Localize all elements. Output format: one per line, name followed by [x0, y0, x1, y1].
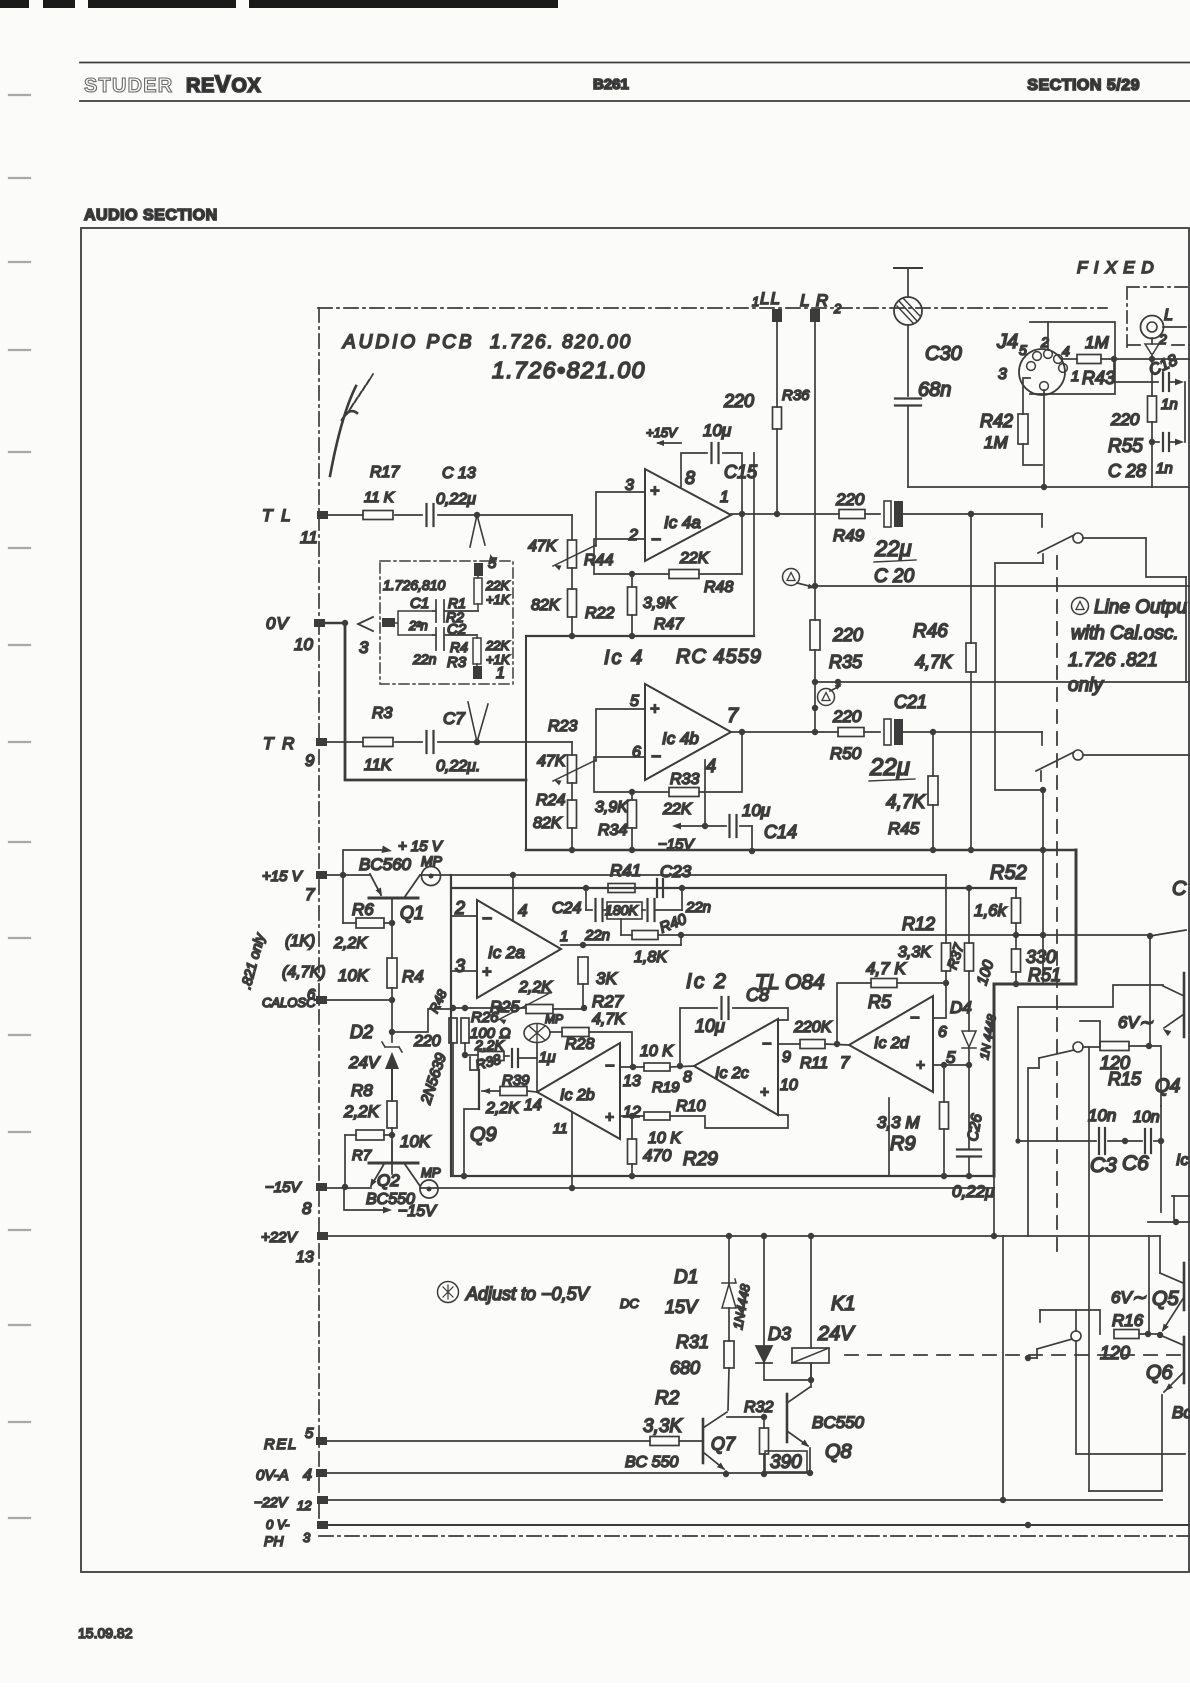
wire C6 right leg [1160, 1106, 1162, 1212]
svg-text:R36: R36 [782, 387, 810, 404]
svg-text:−: − [651, 747, 661, 766]
svg-text:−15V: −15V [398, 1203, 437, 1220]
wire Q8 base [727, 1416, 764, 1418]
capacitor C6 10n [1125, 1140, 1142, 1142]
wire IC4a -input feedback [594, 539, 669, 574]
node test fork 1 [474, 739, 480, 745]
wire R5 to -input [933, 983, 946, 1018]
wire 0V down to cell2 [345, 623, 526, 780]
svg-text:DC: DC [620, 1296, 639, 1311]
resistor R16 120 [1114, 1330, 1139, 1339]
svg-text:R42: R42 [980, 411, 1013, 431]
resistor R35 220 [810, 620, 820, 650]
svg-text:R2: R2 [655, 1388, 680, 1409]
resistor R33 22K [669, 788, 699, 797]
wire R44 wiper to +input [596, 492, 645, 546]
svg-text:10K: 10K [400, 1132, 431, 1151]
resistor R49 220 [839, 510, 865, 519]
svg-text:R31: R31 [676, 1332, 709, 1352]
svg-text:3,9K: 3,9K [595, 799, 629, 816]
svg-text:11: 11 [553, 1120, 568, 1136]
svg-text:R51: R51 [1028, 965, 1061, 985]
wire 0V-A rail [327, 1472, 810, 1474]
svg-text:1: 1 [1071, 368, 1079, 385]
resistor R39 2,2K [482, 1090, 500, 1092]
svg-text:Q9: Q9 [470, 1124, 497, 1146]
wire +15V arrow [343, 850, 385, 875]
svg-text:−15V: −15V [265, 1179, 302, 1196]
svg-text:R33: R33 [670, 771, 699, 788]
resistor R12 3,3K [945, 875, 947, 943]
svg-text:22n: 22n [685, 899, 711, 916]
svg-text:J4: J4 [996, 331, 1018, 353]
svg-text:R4: R4 [450, 639, 468, 655]
wire LR down [814, 322, 816, 620]
svg-text:1.726,810: 1.726,810 [383, 577, 445, 593]
switch SW4 [1071, 1331, 1081, 1341]
svg-text:R55: R55 [1108, 436, 1143, 457]
svg-text:2,2K: 2,2K [343, 1102, 380, 1121]
svg-text:BC 550: BC 550 [625, 1454, 678, 1471]
svg-text:R17: R17 [370, 464, 400, 481]
wire +15V arrow IC4a pin8 [658, 442, 681, 444]
wire J4 pin2 up [1047, 322, 1049, 350]
wire sw3 to R15 [1083, 1046, 1100, 1048]
svg-text:220: 220 [832, 625, 863, 645]
svg-text:L: L [1164, 307, 1173, 324]
resistor R22 82K [568, 589, 577, 617]
svg-text:(4,7K): (4,7K) [282, 964, 326, 981]
svg-text:2: 2 [454, 898, 465, 918]
svg-text:+: + [916, 1057, 925, 1074]
wire Q4 emitter down [1160, 1046, 1162, 1106]
resistor R9 3,3M [943, 1065, 945, 1102]
wire IC2a pin4 [512, 875, 514, 921]
svg-text:K1: K1 [831, 1293, 855, 1315]
wire C3 C6 line [1018, 1007, 1096, 1141]
svg-text:LL: LL [760, 289, 781, 308]
svg-text:3,3K: 3,3K [898, 944, 932, 961]
transistor Q7 BC550 [702, 1419, 705, 1463]
svg-text:MP: MP [421, 1165, 441, 1180]
wire right edge v577-682 [1185, 577, 1187, 682]
svg-text:6V∼: 6V∼ [1111, 1288, 1147, 1307]
resistor R36 220 [773, 407, 782, 429]
transistor Q2 BC550 [391, 1142, 393, 1162]
wire IC4b +input [596, 709, 645, 761]
svg-text:22n: 22n [412, 651, 437, 667]
svg-text:D2: D2 [350, 1022, 373, 1042]
transistor Q8 BC550 [786, 1394, 789, 1442]
wire output node [561, 944, 681, 946]
svg-text:R27: R27 [592, 992, 624, 1011]
svg-text:390: 390 [770, 1452, 802, 1473]
svg-text:T L: T L [262, 506, 293, 525]
svg-text:R3: R3 [372, 705, 393, 722]
svg-text:C23: C23 [660, 862, 692, 881]
svg-text:7: 7 [727, 705, 739, 727]
wire C15 right leg [753, 453, 755, 636]
svg-text:3: 3 [303, 1530, 311, 1545]
svg-text:R46: R46 [913, 621, 948, 642]
node test fork 5 [474, 512, 480, 518]
svg-text:C 20: C 20 [874, 566, 915, 587]
wire node row y1008 [451, 1007, 526, 1009]
wire J4 pin4 to R43 [1063, 358, 1077, 360]
svg-text:BC560: BC560 [359, 855, 412, 874]
wire dash-dot PCB border bottom [319, 1535, 1190, 1537]
svg-text:C: C [1172, 878, 1187, 900]
svg-text:12: 12 [297, 1498, 312, 1513]
svg-text:R3: R3 [447, 654, 467, 671]
svg-text:(1K): (1K) [285, 933, 315, 950]
svg-text:C14: C14 [764, 822, 797, 842]
trimmer R24 47K [568, 755, 577, 783]
capacitor C28 1n [1149, 439, 1155, 445]
svg-text:REVOX: REVOX [186, 71, 261, 98]
svg-text:Ic 4b: Ic 4b [662, 729, 699, 748]
svg-text:R22: R22 [585, 605, 614, 622]
svg-text:470: 470 [643, 1146, 672, 1165]
wire IC2d pin bottom [888, 1098, 890, 1176]
diode D1 15V zener [728, 1236, 730, 1283]
wire right edge 382-442 [1184, 382, 1186, 442]
svg-text:3,9K: 3,9K [643, 595, 677, 612]
svg-text:7: 7 [305, 885, 315, 904]
diode D4 1N4448 [968, 971, 970, 1031]
wire right net to Q4 base [1018, 985, 1163, 1007]
wire switch1 common to bus [995, 563, 1043, 790]
svg-text:Ic 2d: Ic 2d [874, 1035, 910, 1052]
svg-text:10n: 10n [1088, 1106, 1116, 1125]
op-amp IC2d [849, 996, 933, 1092]
wire -15V arrow Q2 [344, 1189, 385, 1210]
svg-text:4,7K: 4,7K [915, 652, 953, 672]
switch SW3 [1073, 1042, 1083, 1052]
svg-text:3,3 M: 3,3 M [877, 1113, 920, 1132]
svg-text:R34: R34 [598, 822, 627, 839]
capacitor C18 1n [1114, 359, 1158, 382]
wire IC2c -input [778, 1043, 800, 1045]
node MP test point [524, 1024, 550, 1043]
capacitor C30 68n [907, 325, 909, 396]
resistor R42 1M [1023, 378, 1030, 414]
svg-text:+15V: +15V [646, 425, 678, 440]
resistor R5 4,7K [837, 983, 871, 1044]
capacitor C13 0,22u [425, 504, 427, 526]
svg-text:3,3K: 3,3K [643, 1416, 683, 1437]
svg-text:C15: C15 [724, 462, 758, 482]
svg-text:1: 1 [560, 928, 568, 945]
svg-text:2,2K: 2,2K [333, 935, 368, 952]
svg-text:5: 5 [305, 1425, 314, 1442]
svg-text:0,22μ: 0,22μ [952, 1182, 995, 1201]
svg-text:1.726 .821: 1.726 .821 [1068, 650, 1158, 671]
svg-text:82K: 82K [533, 815, 563, 832]
svg-text:10: 10 [294, 635, 313, 654]
svg-text:D3: D3 [768, 1324, 791, 1344]
svg-text:Q5: Q5 [1152, 1288, 1180, 1310]
wire line-out A y586 [815, 585, 1190, 587]
op-amp IC2c [694, 1019, 778, 1115]
wire IC2a pin3 stub [451, 970, 477, 972]
svg-text:1.726•821.00: 1.726•821.00 [492, 357, 646, 383]
resistor R31 680 [724, 1341, 734, 1368]
svg-text:+22V: +22V [261, 1229, 298, 1246]
note line output with cal osc [1072, 598, 1089, 615]
svg-text:−: − [651, 530, 661, 549]
wire Q6 right leg [1088, 1236, 1090, 1491]
svg-text:3K: 3K [596, 969, 617, 988]
wire dash-dot FIXED box [1127, 287, 1190, 347]
trimmer R25 2,2K [526, 1005, 553, 1014]
node A marker ch1 [783, 569, 800, 586]
resistor R37 100 [968, 888, 970, 943]
svg-text:6: 6 [938, 1024, 947, 1041]
svg-text:1M: 1M [984, 433, 1008, 452]
svg-text:Ic 2a: Ic 2a [488, 943, 525, 962]
svg-text:MP: MP [545, 1012, 563, 1026]
wire TR to R24 [571, 742, 573, 755]
resistor R10 10K [644, 1112, 670, 1120]
svg-text:R32: R32 [744, 1399, 773, 1416]
svg-text:R41: R41 [610, 861, 641, 880]
svg-text:Ic 2b: Ic 2b [560, 1087, 595, 1104]
svg-text:4: 4 [706, 756, 716, 776]
op-amp IC4a [645, 469, 731, 561]
svg-text:22n: 22n [584, 927, 610, 944]
diode D3 1N4448 [763, 1236, 765, 1345]
resistor R34 3,9K [629, 789, 635, 795]
capacitor C8 10u [680, 1008, 717, 1066]
connector J4 [1030, 322, 1115, 394]
svg-text:5: 5 [630, 693, 639, 710]
svg-text:C30: C30 [925, 343, 962, 365]
capacitor C14 10u [705, 760, 726, 826]
wire CALOSC [327, 999, 392, 1001]
svg-text:R9: R9 [890, 1133, 916, 1155]
svg-text:68n: 68n [918, 379, 951, 401]
wire IC2b -input [620, 1066, 644, 1068]
resistor R6 2,2K [342, 875, 344, 923]
resistor R41 on box top [608, 884, 635, 893]
svg-text:RC 4559: RC 4559 [676, 646, 762, 668]
wire IC4b output [731, 731, 838, 733]
svg-text:11 K: 11 K [364, 489, 395, 506]
svg-text:10 K: 10 K [648, 1130, 682, 1147]
svg-text:13: 13 [623, 1073, 641, 1090]
capacitor C23 on box top [656, 879, 658, 897]
wire switch2 out [1083, 754, 1190, 756]
svg-text:Ic: Ic [1176, 1152, 1188, 1169]
capacitor 1u [511, 1049, 513, 1067]
svg-text:C8: C8 [746, 985, 769, 1005]
svg-text:0 V-: 0 V- [266, 1517, 290, 1532]
wire to switch2 [930, 729, 936, 735]
wire vertical x1089 [1088, 1047, 1090, 1236]
svg-text:2,2K: 2,2K [518, 979, 553, 996]
svg-text:R12: R12 [902, 914, 935, 934]
resistor R2 3,3K [650, 1437, 679, 1446]
svg-text:C 13: C 13 [442, 465, 476, 482]
svg-text:REL: REL [264, 1436, 298, 1453]
jack L FIXED [1141, 316, 1164, 339]
svg-text:4: 4 [1062, 343, 1070, 359]
svg-text:+: + [605, 1109, 614, 1126]
svg-text:AUDIO PCB: AUDIO PCB [342, 332, 475, 353]
svg-text:Q2: Q2 [377, 1171, 400, 1190]
svg-text:R19: R19 [652, 1079, 680, 1096]
svg-text:24V: 24V [348, 1053, 381, 1072]
wire dashed relay actuation K1 [845, 1354, 1190, 1356]
wire dashed cal-osc boundary [1056, 556, 1058, 1258]
resistor R11 220K [800, 1040, 825, 1049]
op-amp IC4b [645, 684, 731, 780]
wire IC2b +input [620, 1115, 644, 1117]
wire bus IC4 cell mid [526, 635, 754, 637]
svg-text:5: 5 [1019, 342, 1027, 358]
resistor R38 2,2K [465, 1054, 478, 1056]
resistor R3 11K [363, 738, 393, 747]
svg-text:0,22μ: 0,22μ [436, 491, 476, 508]
svg-text:BC550: BC550 [812, 1413, 865, 1432]
svg-text:C24: C24 [552, 900, 581, 917]
svg-text:R5: R5 [868, 992, 892, 1012]
svg-text:Bс: Bс [1172, 1403, 1190, 1422]
svg-text:0,22μ.: 0,22μ. [436, 758, 480, 775]
svg-text:Q6: Q6 [1146, 1362, 1174, 1384]
node Ph shield symbol [330, 386, 357, 476]
resistor R4 10K [387, 958, 397, 988]
wire switch2 common node [1040, 787, 1046, 793]
resistor R28 4,7K [550, 1031, 562, 1033]
resistor R32 390 [761, 1414, 767, 1420]
svg-text:Q1: Q1 [400, 903, 424, 923]
svg-text:11K: 11K [364, 757, 393, 774]
resistor R7 10K [345, 1134, 356, 1136]
svg-text:1: 1 [496, 665, 505, 682]
svg-text:R23: R23 [548, 718, 577, 735]
svg-text:−: − [605, 1058, 614, 1075]
wire IC2d +input [933, 1064, 969, 1066]
capacitor C21 22u [864, 731, 880, 733]
wire +22V bus [327, 1235, 1160, 1237]
svg-text:C 28: C 28 [1108, 461, 1146, 481]
wire IC4 box left [525, 636, 527, 850]
resistor R47 3,9K [629, 571, 635, 577]
resistor R48b 220 vertical [449, 1018, 457, 1043]
resistor R15 120 [1100, 1042, 1129, 1051]
switch SW2 [1073, 750, 1083, 760]
svg-text:R15: R15 [1108, 1069, 1142, 1089]
svg-text:AUDIO SECTION: AUDIO SECTION [84, 207, 218, 224]
svg-text:82K: 82K [531, 597, 561, 614]
svg-text:15V: 15V [665, 1297, 699, 1317]
wire IC4b -input feedback [594, 757, 669, 792]
wire D2 node to IC2 row [389, 1029, 395, 1035]
svg-text:4,7K: 4,7K [592, 1011, 626, 1028]
svg-text:C21: C21 [894, 692, 927, 712]
svg-text:SECTION 5/29: SECTION 5/29 [1027, 77, 1140, 94]
svg-text:R28: R28 [565, 1036, 594, 1053]
svg-text:+: + [650, 483, 659, 500]
svg-text:47K: 47K [537, 753, 567, 770]
transistor Q1 BC560 [369, 897, 418, 900]
svg-text:22μ: 22μ [874, 536, 912, 561]
resistor R1+R2 22K+1K [477, 604, 479, 611]
svg-text:15.09.82: 15.09.82 [78, 1625, 133, 1641]
svg-text:C7: C7 [443, 709, 465, 728]
resistor R40 180K [607, 902, 642, 919]
svg-text:C3: C3 [1090, 1154, 1117, 1177]
wire 0V-PH rail [327, 1524, 1190, 1526]
svg-text:1,8K: 1,8K [634, 949, 668, 966]
svg-text:10μ: 10μ [703, 421, 732, 440]
svg-text:4: 4 [303, 1467, 312, 1484]
wire switch1 out [1083, 538, 1186, 577]
diode D2 24V zener [391, 1000, 393, 1042]
svg-text:220: 220 [832, 707, 862, 726]
wire TL input [327, 514, 363, 516]
svg-text:B261: B261 [593, 76, 629, 93]
svg-text:F I X E D: F I X E D [1077, 258, 1155, 277]
svg-text:4,7K: 4,7K [886, 792, 926, 813]
transistor Q5 [1159, 1236, 1161, 1273]
wire J4 pin bottom down [1043, 390, 1045, 487]
svg-text:3: 3 [455, 956, 465, 976]
wire IC2a pin2 stub [451, 915, 477, 917]
svg-text:22K: 22K [485, 638, 510, 653]
svg-text:6: 6 [632, 744, 641, 761]
svg-text:R4: R4 [402, 967, 424, 986]
svg-text:R50: R50 [830, 744, 862, 763]
resistor R17 11K [363, 511, 393, 520]
svg-text:Adjust to −0,5V: Adjust to −0,5V [465, 1284, 591, 1304]
svg-text:10μ: 10μ [742, 801, 771, 820]
svg-text:3: 3 [998, 366, 1007, 383]
svg-text:220: 220 [835, 490, 865, 509]
resistor R50 220 [838, 728, 864, 737]
svg-text:C6: C6 [1122, 1152, 1149, 1175]
wire -15V rail [327, 1187, 371, 1189]
svg-text:13: 13 [296, 1249, 314, 1266]
svg-text:R7: R7 [352, 1147, 372, 1164]
resistor R8 2,2K [387, 1101, 397, 1128]
transistor Q4 [1183, 973, 1186, 1037]
wire module input loop [382, 618, 395, 627]
svg-text:6: 6 [307, 986, 316, 1003]
svg-text:4: 4 [518, 901, 527, 920]
wire dash-dot PCB border left [318, 308, 320, 1530]
svg-text:3: 3 [625, 477, 634, 494]
op-amp IC2b [537, 1043, 620, 1139]
svg-text:Ic 2: Ic 2 [686, 970, 728, 993]
capacitor C15 10u [723, 453, 742, 514]
svg-text:R24: R24 [536, 792, 565, 809]
resistor R43 1M [1077, 355, 1101, 364]
wire Q5 Q6 emitter node [1148, 1236, 1150, 1334]
wire LL to R36 [776, 322, 778, 407]
svg-text:22K: 22K [662, 801, 693, 818]
svg-text:220: 220 [413, 1033, 441, 1050]
svg-text:1.726. 820.00: 1.726. 820.00 [490, 332, 632, 353]
svg-text:R47: R47 [654, 616, 684, 633]
resistor R3+R4 22K+1K [476, 635, 478, 638]
svg-text:6V∼: 6V∼ [1118, 1013, 1154, 1032]
svg-text:with Cal.osc.: with Cal.osc. [1071, 623, 1179, 644]
svg-text:+: + [650, 701, 659, 718]
svg-text:+: + [482, 964, 491, 981]
